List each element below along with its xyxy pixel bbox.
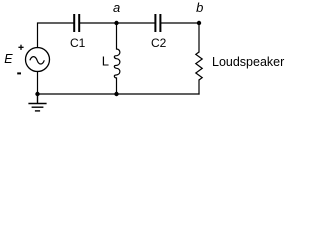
resistor loudspeaker [196,52,202,80]
svg-text:b: b [196,0,203,15]
source minus sign [17,72,21,74]
inductor L [114,49,120,78]
svg-text:C2: C2 [151,36,167,50]
junction ground [35,92,39,96]
wire top-middle segment [80,22,154,24]
capacitor C2 [155,14,160,32]
node a [114,21,118,25]
capacitor C1 [74,14,79,32]
wire left rail lower [37,72,39,95]
svg-text:L: L [102,54,109,69]
junction inductor-bottom [114,92,118,96]
svg-text:E: E [4,52,13,66]
svg-text:Loudspeaker: Loudspeaker [212,55,284,69]
wire top-left segment [38,23,74,48]
svg-text:a: a [113,0,120,15]
node b [197,21,201,25]
wire inductor to bottom [116,78,118,94]
wire resistor to bottom [198,80,200,94]
source E circle [26,48,50,72]
wire node a to inductor [116,23,118,49]
source sine wave [30,57,44,64]
wire bottom [38,93,200,95]
wire top-right segment [161,22,199,24]
wire node b to resistor [198,23,200,52]
source plus sign [18,45,23,50]
ground [28,94,46,111]
svg-text:C1: C1 [70,36,86,50]
